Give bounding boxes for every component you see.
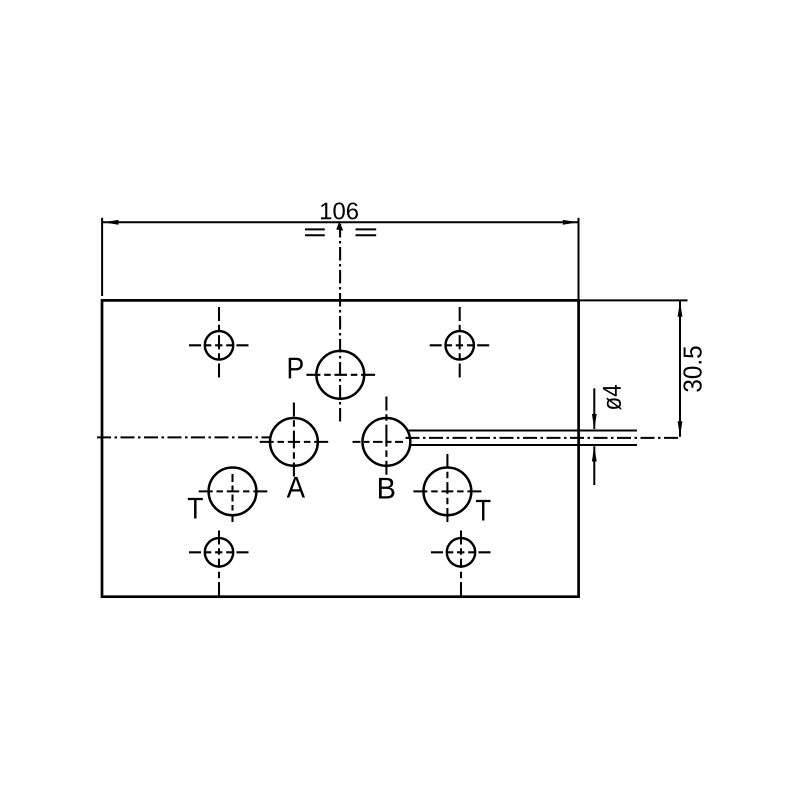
plate outline	[102, 300, 579, 596]
port T left hole	[188, 468, 267, 523]
centerline arrowhead	[336, 221, 343, 230]
dimension o4	[592, 385, 621, 485]
vertical centerline	[339, 224, 341, 424]
port A hole	[260, 403, 329, 498]
mounting hole top-left	[189, 307, 249, 378]
slot upper line	[408, 430, 638, 432]
mounting hole bottom-left	[189, 531, 249, 597]
slot lower line	[410, 444, 637, 446]
mounting hole bottom-right	[431, 531, 491, 597]
dimension 30.5	[579, 300, 702, 436]
slot centerline	[406, 437, 681, 439]
mounting hole top-right	[430, 307, 490, 378]
port B hole	[353, 397, 411, 499]
dimension 106	[102, 202, 578, 300]
symmetry marks	[305, 229, 376, 235]
horizontal centerline left	[97, 436, 271, 438]
port P hole	[289, 351, 375, 399]
port T right hole	[413, 454, 490, 522]
